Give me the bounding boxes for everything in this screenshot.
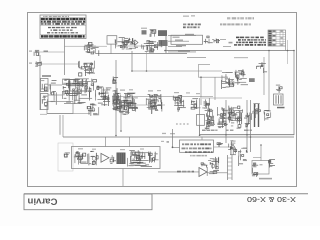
top row baseline wire <box>115 45 163 47</box>
title block box <box>40 15 86 39</box>
left chain cluster <box>112 88 119 110</box>
volume pot box <box>41 79 49 92</box>
connector ladder <box>228 155 233 180</box>
heatsink faint box <box>58 143 73 171</box>
signal bus <box>132 70 222 72</box>
B+ rail <box>165 50 294 52</box>
bias exit wire <box>40 113 47 115</box>
power amp block outline <box>72 147 161 169</box>
under-rail speck 2 <box>170 133 175 134</box>
note wire marks <box>217 143 223 147</box>
pa driver cluster <box>89 151 98 165</box>
tone stack IC cluster <box>62 78 96 104</box>
svg-text:X-30 & X-60: X-30 & X-60 <box>247 195 296 202</box>
jack2 wire <box>42 63 79 65</box>
handwritten note line 1 <box>227 17 254 19</box>
switch out wire 3 <box>168 46 182 48</box>
feedback line 2 <box>120 105 122 131</box>
footswitch box <box>197 115 205 126</box>
speaker jack cluster <box>207 157 219 176</box>
parts list text row 4 <box>234 44 266 46</box>
parts list text row 2 <box>238 39 266 41</box>
pa right parts <box>152 152 158 163</box>
reverb route wire <box>199 64 223 77</box>
footswitch ground wire <box>199 125 201 135</box>
reverb feed wire <box>260 145 262 161</box>
speaker note box <box>180 140 214 152</box>
grid resistor <box>44 51 49 52</box>
reverb tank label <box>259 178 272 180</box>
switch out wire 2 <box>168 40 189 42</box>
reverb output op-amp <box>199 168 207 177</box>
screen vertical <box>287 40 289 64</box>
mid stage cluster 1 <box>117 93 138 115</box>
footswitch parts <box>205 120 212 129</box>
aux jack <box>87 42 93 49</box>
ps left vertical <box>199 98 201 135</box>
ps top wire <box>202 97 242 99</box>
note box feed wire <box>173 129 180 147</box>
reverb bottom-left marks <box>252 173 258 177</box>
relay box label <box>173 37 180 39</box>
fan part above connector <box>276 85 282 93</box>
treble pot box <box>41 94 49 110</box>
relay wire <box>212 39 214 41</box>
feedback line <box>115 60 117 135</box>
thermal mark <box>64 152 70 157</box>
logic IC dark box 2 <box>159 40 168 46</box>
logic IC dark box 1 <box>158 30 167 36</box>
phase inverter cluster <box>256 62 267 73</box>
reverb return label <box>177 171 194 173</box>
footswitch jack box <box>107 36 117 44</box>
note mark <box>229 42 233 44</box>
stage to switch wire <box>65 45 108 47</box>
supply vertical C <box>250 100 252 152</box>
ps chain 4 <box>244 112 251 126</box>
input label <box>29 51 32 52</box>
reverb relay dark box <box>249 78 255 82</box>
tone stack small box <box>63 79 70 85</box>
reverb send vertical <box>200 77 202 105</box>
handwritten note line 2 <box>220 23 251 25</box>
title block bottom row base <box>41 35 85 37</box>
title block rule 3 <box>40 22 86 24</box>
relay contact cluster <box>204 36 213 43</box>
top row cluster 1 <box>115 39 126 49</box>
ps label row 2 <box>226 130 233 132</box>
pa input cluster <box>74 151 88 164</box>
second stage cluster <box>96 86 112 106</box>
small label block row 2 <box>183 26 200 28</box>
speaker note text 3 <box>185 151 213 153</box>
switch dense rows <box>141 41 162 53</box>
pa output box outline <box>131 152 140 164</box>
note wire <box>214 146 235 148</box>
heater rail <box>96 53 188 55</box>
pa left vertical 2 <box>62 115 64 137</box>
ps label row 3 <box>244 130 252 132</box>
pa op-amp triangle <box>101 153 109 162</box>
driver vertical <box>268 51 270 111</box>
title block header text row <box>43 16 69 17</box>
pot wire 2 <box>48 94 62 96</box>
supply vertical B <box>246 100 248 152</box>
optocoupler dark box <box>142 30 147 34</box>
title block dense row 1 base <box>41 18 85 20</box>
title block rule 2 <box>40 19 86 21</box>
title block dense text row 1 <box>41 18 85 20</box>
reverb feed jog <box>253 157 261 159</box>
junction dots <box>115 50 295 153</box>
stage link vertical <box>131 51 133 71</box>
svg-text:Carvin: Carvin <box>27 196 57 207</box>
reverb jack bracket <box>270 160 276 168</box>
pot wire 1 <box>48 84 62 86</box>
optocoupler label <box>141 28 147 29</box>
input jack 1 <box>34 50 39 56</box>
treble pot parts <box>42 96 48 106</box>
switch vertical bus <box>165 35 167 53</box>
hand dash b <box>191 15 195 16</box>
op-amp out wire <box>207 172 228 174</box>
jack1 wire <box>40 51 65 53</box>
title block dense text row 2 <box>41 21 85 23</box>
switch out wire 4 <box>168 51 196 53</box>
title block bottom dense row <box>41 35 85 37</box>
volume pot parts <box>41 81 48 91</box>
reverb return wire <box>158 171 199 173</box>
connector box <box>274 94 284 105</box>
footswitch dashed link <box>176 123 190 125</box>
bias diode cluster <box>87 103 99 115</box>
pot side parts <box>50 81 56 105</box>
mid stage cluster 3 <box>173 96 186 112</box>
title block rule 4 <box>40 24 86 26</box>
switch transistor cluster <box>150 30 157 37</box>
reverb mix cluster <box>235 69 248 85</box>
aux stub <box>95 49 97 54</box>
reverb tank box <box>252 161 269 175</box>
pa mid parts <box>110 155 116 164</box>
fs jack drop <box>110 44 112 53</box>
note box top tick <box>201 137 203 141</box>
series cap on feedback <box>113 77 118 84</box>
note wire node <box>172 146 174 148</box>
switch out label 2 <box>175 40 183 41</box>
relay coil long box <box>171 35 203 44</box>
switch input cluster <box>119 38 132 49</box>
switch out label 3 <box>176 45 186 46</box>
reverb coil stack <box>252 163 258 173</box>
switch out label 1 <box>185 34 194 35</box>
first stage transistor <box>78 61 95 76</box>
title block centered text line 2 <box>51 30 73 31</box>
under-rail speck 1 <box>162 133 166 134</box>
supply vertical A <box>225 100 227 143</box>
first stage cap row <box>84 44 99 56</box>
pa left vertical <box>59 115 61 135</box>
reverb driver cluster <box>221 72 234 89</box>
coupling wire <box>64 39 66 75</box>
phase splitter vertical <box>263 57 265 95</box>
ps chain 3 <box>228 106 243 129</box>
pa rail stub 1 <box>105 137 107 147</box>
schematic sheet border <box>28 13 297 187</box>
speaker note text 2 <box>182 148 212 150</box>
parts list text row 3 <box>236 42 266 44</box>
third stage cluster <box>112 93 122 111</box>
parts list text row 1 <box>236 37 264 39</box>
stage link vertical 2 <box>146 52 148 71</box>
pa rail stub 2 <box>128 137 130 147</box>
right rail vertical <box>293 51 295 136</box>
pa label specks <box>78 148 144 150</box>
title block rule 5 <box>40 34 86 36</box>
bias supply box <box>47 101 73 113</box>
input jack ground wire <box>39 55 41 110</box>
relay wire 2 <box>220 39 226 41</box>
title block dense text row 3 <box>41 23 85 25</box>
power transformer bars <box>253 104 261 127</box>
headphone arrow cluster <box>228 140 237 155</box>
switch out label 4 <box>178 50 190 51</box>
mid stage cluster 5 <box>202 98 212 111</box>
rail jog <box>187 57 206 59</box>
ps chain 2 <box>217 107 229 128</box>
small label block <box>183 24 201 26</box>
Carvin logo box <box>24 194 152 210</box>
ps chain 1 <box>206 108 215 127</box>
connector label dash <box>277 107 285 109</box>
pa transformer dark box <box>117 153 126 165</box>
rectifier cluster <box>264 111 271 121</box>
title block rule 1 <box>40 17 86 19</box>
hand dash a <box>183 16 189 17</box>
connector box stripes <box>276 95 281 104</box>
input jack 2 <box>35 61 41 66</box>
switch out wire 1 <box>168 34 196 36</box>
bridge diamond <box>132 40 138 45</box>
reverb jack marks <box>268 160 273 167</box>
volume pot label <box>42 75 51 77</box>
reverb top wire <box>234 57 248 59</box>
left supply stub <box>47 113 90 115</box>
title block centered text line 3 <box>47 32 78 33</box>
mid chain wire 2 <box>112 104 165 106</box>
reverb inner mark <box>260 164 263 165</box>
pa output transistor cluster <box>127 150 152 166</box>
note wire tick <box>167 141 170 143</box>
mid stage cluster 4 <box>191 98 201 109</box>
speaker note text 1 <box>182 143 211 145</box>
speaker note label <box>190 155 207 157</box>
short top wire <box>223 46 231 48</box>
component value table <box>268 30 286 46</box>
footer rule <box>24 193 308 195</box>
top row cluster 2 <box>128 38 138 48</box>
power amp ground drop <box>122 169 124 187</box>
mid row label specks <box>120 89 200 94</box>
under-rail speck 3 <box>161 141 164 142</box>
mid chain wire <box>112 96 213 98</box>
mid stage cluster 2 <box>146 94 162 114</box>
table drop wire <box>285 46 287 51</box>
op-amp feedback marks <box>201 163 207 168</box>
reverb return vertical <box>214 77 216 100</box>
relay cap <box>214 38 220 42</box>
arrowhead <box>230 146 234 150</box>
supply rail lower <box>63 136 294 138</box>
title block centered text line 1 <box>48 27 77 28</box>
supply rail upper <box>200 134 294 136</box>
input label 2 <box>29 63 32 64</box>
line out cluster <box>238 148 247 166</box>
ps label row 1 <box>202 130 218 132</box>
